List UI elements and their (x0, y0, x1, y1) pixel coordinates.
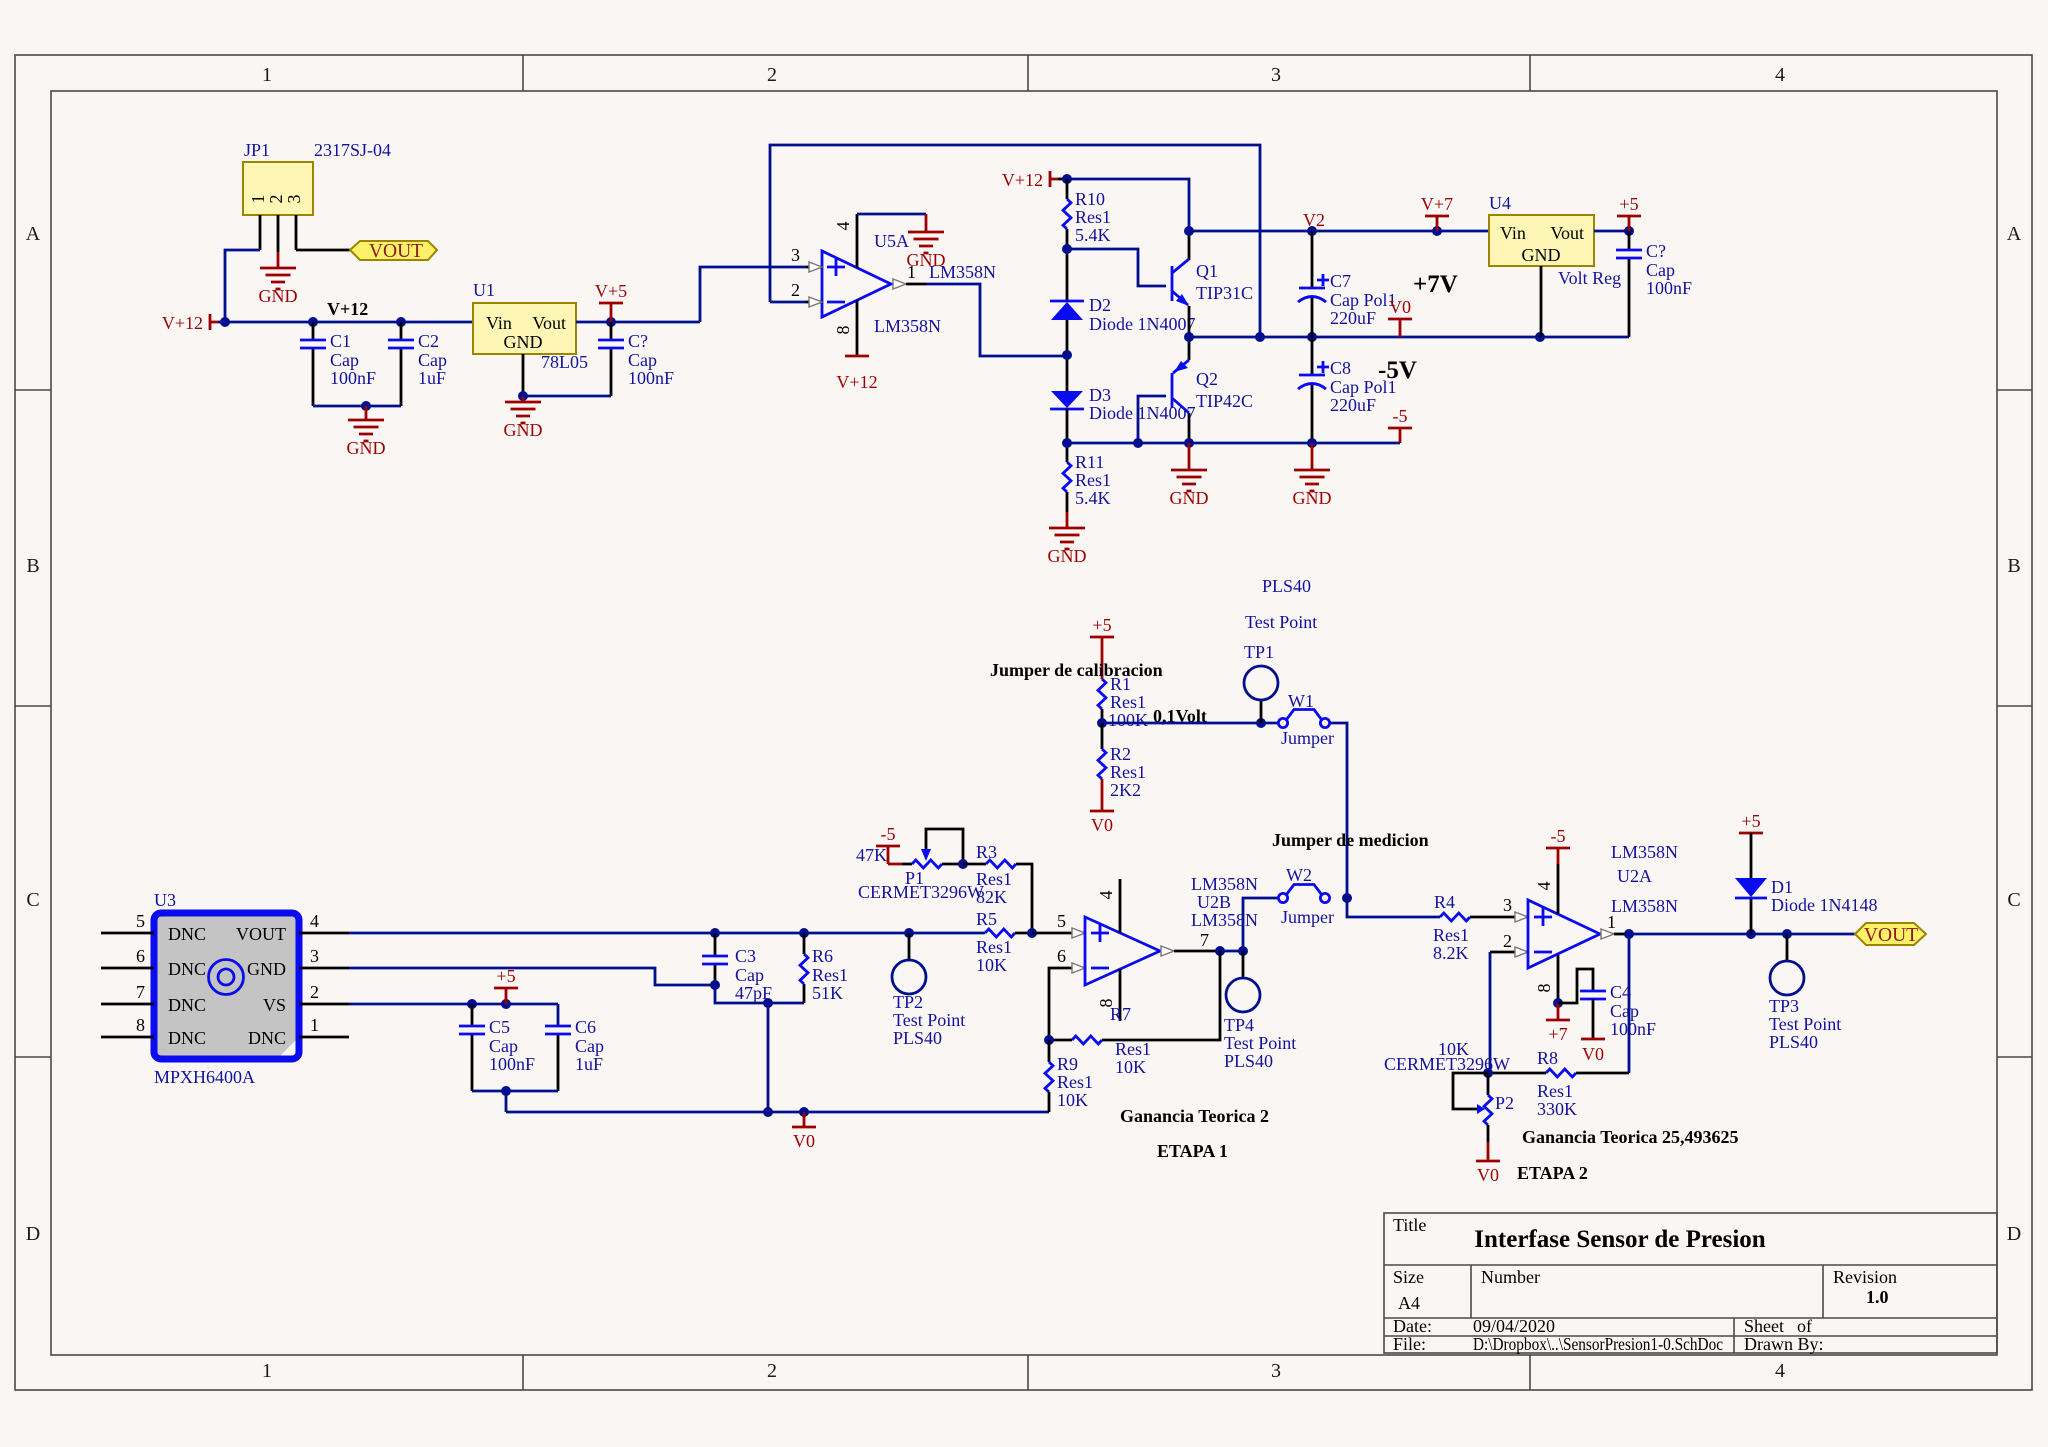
svg-text:VOUT: VOUT (1864, 925, 1918, 946)
resistor R6 (800, 933, 848, 1003)
potentiometer P1 CERMET3296W (856, 829, 984, 902)
svg-text:Jumper de calibracion: Jumper de calibracion (990, 660, 1163, 680)
svg-text:LM358N: LM358N (1191, 874, 1258, 894)
ground GND (JP1 pin2) (259, 252, 298, 306)
annotation Ganancia Teorica 2 (bold) (1120, 1106, 1269, 1126)
svg-text:4: 4 (1775, 64, 1785, 86)
svg-text:78L05: 78L05 (541, 352, 588, 372)
svg-text:ETAPA 2: ETAPA 2 (1517, 1163, 1588, 1183)
svg-text:V+7: V+7 (1421, 194, 1453, 214)
svg-text:GND: GND (1293, 488, 1332, 508)
svg-text:Drawn By:: Drawn By: (1744, 1334, 1824, 1354)
svg-text:Diode 1N4007: Diode 1N4007 (1089, 314, 1196, 334)
wire R10 to Q1 base (1062, 244, 1166, 286)
svg-text:100nF: 100nF (628, 368, 674, 388)
svg-text:R10: R10 (1075, 189, 1105, 209)
op-amp U2B LM358N (1085, 874, 1258, 985)
wire C? bottom to U1 GND (523, 395, 611, 398)
svg-text:B: B (26, 555, 39, 577)
svg-text:C6: C6 (575, 1017, 596, 1037)
svg-text:Q2: Q2 (1196, 369, 1218, 389)
svg-text:D:\Dropbox\..\SensorPresion1-0: D:\Dropbox\..\SensorPresion1-0.SchDoc (1473, 1334, 1723, 1354)
svg-text:Revision: Revision (1833, 1267, 1897, 1287)
svg-text:Cap: Cap (1646, 260, 1675, 280)
resistor R1 (1098, 674, 1148, 730)
power port V0 (P2) (1476, 1142, 1500, 1185)
svg-text:1: 1 (248, 195, 268, 204)
svg-text:V0: V0 (793, 1131, 815, 1151)
wire C1-C2 bottoms (313, 401, 401, 411)
svg-text:C8: C8 (1330, 358, 1351, 378)
jumper W1 (1278, 691, 1334, 748)
port VOUT (output) (1855, 923, 1926, 946)
op-amp U2A LM358N (1528, 842, 1678, 968)
svg-text:100nF: 100nF (489, 1054, 535, 1074)
svg-text:Res1: Res1 (976, 869, 1012, 889)
svg-text:V+12: V+12 (327, 299, 368, 319)
annotation ETAPA 1 (bold) (1157, 1141, 1228, 1161)
svg-text:C1: C1 (330, 331, 351, 351)
ground GND (Q2 collector) (1170, 443, 1209, 508)
capacitor C? (at U4) (1616, 231, 1692, 337)
transistor Q1 TIP31C (1172, 231, 1253, 337)
pin 2 of U3 VS (299, 982, 349, 1004)
svg-text:Vout: Vout (532, 313, 566, 333)
resistor R11 (1063, 452, 1111, 512)
svg-text:7: 7 (1200, 930, 1209, 950)
svg-text:PLS40: PLS40 (893, 1028, 942, 1048)
svg-text:VOUT: VOUT (236, 924, 286, 944)
pin 7 of U3 (101, 982, 154, 1004)
svg-text:Cap: Cap (628, 350, 657, 370)
svg-text:09/04/2020: 09/04/2020 (1473, 1316, 1555, 1336)
svg-text:Test Point: Test Point (893, 1010, 965, 1030)
wire D3 to bottom row (1062, 409, 1072, 462)
svg-text:3: 3 (310, 946, 319, 966)
svg-text:+5: +5 (1741, 811, 1760, 831)
svg-text:DNC: DNC (168, 959, 206, 979)
svg-text:Jumper: Jumper (1281, 907, 1334, 927)
ground GND (U1) (504, 396, 543, 440)
svg-text:Res1: Res1 (1433, 925, 1469, 945)
wire output to R8 (1628, 934, 1631, 1073)
svg-text:V0: V0 (1389, 297, 1411, 317)
svg-text:Jumper de medicion: Jumper de medicion (1272, 830, 1429, 850)
svg-text:GND: GND (504, 332, 543, 352)
ground GND (C1 C2) (347, 406, 386, 458)
power port V+7 (1421, 194, 1453, 231)
test point TP4 (1224, 951, 1296, 1071)
power port -5 (bottom row) (1388, 406, 1412, 443)
svg-text:R7: R7 (1110, 1004, 1131, 1024)
regulator U1 78L05 (473, 280, 588, 372)
annotation Jumper de medicion (bold) (1272, 830, 1429, 850)
TITLE-BLOCK (1384, 1213, 1997, 1354)
wire U2A output to VOUT (1624, 929, 1855, 939)
wire V+5 node to U5A pin3 (700, 267, 806, 322)
svg-text:TIP31C: TIP31C (1196, 283, 1253, 303)
svg-text:R8: R8 (1537, 1048, 1558, 1068)
net label V2 (1303, 210, 1325, 230)
svg-text:6: 6 (136, 946, 145, 966)
power port -5 (P1) (876, 824, 902, 864)
svg-text:Q1: Q1 (1196, 261, 1218, 281)
svg-text:C?: C? (628, 331, 648, 351)
svg-text:Vin: Vin (1500, 223, 1526, 243)
svg-text:C5: C5 (489, 1017, 510, 1037)
svg-text:CERMET3296W: CERMET3296W (858, 882, 984, 902)
svg-text:V+12: V+12 (1002, 170, 1043, 190)
svg-text:GND: GND (247, 959, 286, 979)
svg-text:6: 6 (1057, 946, 1066, 966)
svg-text:10K: 10K (976, 955, 1007, 975)
wire sensor GND net (349, 968, 715, 985)
svg-text:2317SJ-04: 2317SJ-04 (314, 140, 391, 160)
wire U4 GND pin (1540, 266, 1543, 337)
pin 4 of U3 VOUT (299, 911, 349, 933)
pin 2 net of U2A (1490, 931, 1528, 1073)
svg-text:1: 1 (1607, 912, 1616, 932)
svg-text:A: A (2007, 223, 2022, 245)
connector JP1 (243, 140, 391, 252)
power port V+12 (left) (162, 313, 218, 333)
diode D3 1N4007 (1050, 385, 1196, 423)
net label V+12 (bold) (327, 299, 368, 319)
svg-text:ETAPA 1: ETAPA 1 (1157, 1141, 1228, 1161)
svg-text:Test Point: Test Point (1224, 1033, 1296, 1053)
svg-text:Interfase Sensor de Presion: Interfase Sensor de Presion (1474, 1226, 1766, 1253)
transistor Q2 TIP42C (1172, 337, 1253, 443)
svg-text:LM358N: LM358N (929, 262, 996, 282)
capacitor C3 (702, 933, 772, 1003)
svg-text:8.2K: 8.2K (1433, 943, 1469, 963)
svg-text:Res1: Res1 (1537, 1081, 1573, 1101)
port VOUT (left) (350, 241, 437, 262)
capacitor C6 (545, 1004, 604, 1091)
svg-text:DNC: DNC (168, 924, 206, 944)
wire V2 rail (1184, 226, 1489, 236)
svg-text:TP2: TP2 (893, 992, 923, 1012)
svg-text:5: 5 (1057, 911, 1066, 931)
svg-text:2: 2 (767, 64, 777, 86)
svg-text:B: B (2007, 555, 2020, 577)
svg-text:D: D (2007, 1223, 2021, 1245)
svg-text:A: A (26, 223, 41, 245)
power port V+12 (R10 top) (1002, 170, 1058, 190)
svg-text:Cap: Cap (330, 350, 359, 370)
pin 3 of U3 GND (299, 946, 349, 968)
resistor R9 (1045, 1040, 1093, 1112)
wire U2B output node (1215, 946, 1248, 956)
diode D1 1N4148 (1735, 833, 1878, 934)
diode D2 1N4007 (1050, 295, 1196, 334)
svg-text:V+12: V+12 (162, 313, 203, 333)
svg-text:Res1: Res1 (1075, 207, 1111, 227)
svg-text:R3: R3 (976, 842, 997, 862)
svg-text:R11: R11 (1075, 452, 1104, 472)
svg-text:Test Point: Test Point (1245, 612, 1317, 632)
svg-text:Cap: Cap (418, 350, 447, 370)
svg-text:TIP42C: TIP42C (1196, 391, 1253, 411)
svg-text:Ganancia Teorica 2: Ganancia Teorica 2 (1120, 1106, 1269, 1126)
svg-text:Res1: Res1 (1110, 762, 1146, 782)
ground GND (C8) (1293, 443, 1332, 508)
wire C3 bottom to R6 bottom (715, 985, 804, 1112)
pin 4 of U5A to GND (833, 214, 926, 268)
power port V0 (mid rail) (1388, 297, 1412, 337)
power port +5 (D1) (1739, 811, 1763, 833)
pin 5 stub of U2B (1032, 911, 1085, 938)
svg-text:V0: V0 (1477, 1165, 1499, 1185)
capacitor C4 (1558, 969, 1656, 1039)
potentiometer P2 CERMET3296W (1384, 1039, 1514, 1142)
svg-text:Size: Size (1393, 1267, 1424, 1287)
power port +5 (R1) (1090, 615, 1114, 679)
pin 3 stub of U2A (1503, 895, 1528, 922)
annotation ETAPA 2 (bold) (1517, 1163, 1588, 1183)
capacitor C8 220uF (1298, 337, 1397, 443)
wire W1 to W2 (1330, 723, 1347, 898)
svg-text:JP1: JP1 (244, 140, 270, 160)
svg-text:Cap: Cap (489, 1036, 518, 1056)
svg-text:A4: A4 (1398, 1293, 1420, 1313)
power port +5 (sensor) (494, 966, 518, 1004)
wire C5-C6 bottoms to V0 rail (472, 1086, 558, 1112)
svg-text:GND: GND (1522, 245, 1561, 265)
svg-text:Cap: Cap (1610, 1001, 1639, 1021)
ground GND (U5A pin4) (907, 214, 946, 270)
power port +7 (U2A pin8) (1546, 1003, 1570, 1044)
svg-text:-5: -5 (1393, 406, 1408, 426)
wire W2 left to stage1 output (1243, 898, 1278, 951)
wire W2 node to R4 (1342, 893, 1440, 917)
svg-text:1: 1 (262, 64, 272, 86)
svg-text:V+12: V+12 (836, 372, 877, 392)
svg-text:C?: C? (1646, 241, 1666, 261)
svg-text:W1: W1 (1288, 691, 1314, 711)
svg-text:DNC: DNC (168, 1028, 206, 1048)
svg-text:D: D (26, 1223, 40, 1245)
pin 1 output of U5A (893, 262, 996, 289)
svg-text:VS: VS (263, 995, 286, 1015)
svg-text:2: 2 (791, 280, 800, 300)
svg-text:V0: V0 (1091, 815, 1113, 835)
wire mid V0 rail (1184, 332, 1629, 342)
svg-text:V2: V2 (1303, 210, 1325, 230)
annotation Ganancia Teorica 25,493625 (bold) (1522, 1127, 1739, 1147)
wire bottom row (1067, 438, 1400, 448)
svg-text:3: 3 (1503, 895, 1512, 915)
svg-text:R5: R5 (976, 909, 997, 929)
svg-text:U2B: U2B (1197, 892, 1231, 912)
capacitor C7 220uF (1298, 231, 1397, 337)
svg-text:P2: P2 (1495, 1093, 1514, 1113)
svg-text:D1: D1 (1771, 877, 1793, 897)
wire D3 node to Q2 base (1133, 396, 1166, 448)
svg-text:100K: 100K (1108, 710, 1148, 730)
op-amp U5A LM358N (791, 231, 941, 336)
svg-text:1: 1 (310, 1015, 319, 1035)
svg-text:1.0: 1.0 (1866, 1287, 1889, 1307)
svg-text:of: of (1797, 1316, 1812, 1336)
svg-text:Number: Number (1481, 1267, 1540, 1287)
wire R1-R2 node to W1 (1097, 718, 1278, 728)
svg-text:R6: R6 (812, 946, 833, 966)
svg-text:1: 1 (907, 262, 916, 282)
wire U1 GND pin (518, 354, 528, 401)
power port V+12 (U5A pin8) (836, 356, 877, 392)
svg-text:Ganancia Teorica 25,493625: Ganancia Teorica 25,493625 (1522, 1127, 1739, 1147)
svg-text:-5: -5 (1551, 826, 1566, 846)
pin 6 of U3 (101, 946, 154, 968)
svg-text:51K: 51K (812, 983, 843, 1003)
svg-text:GND: GND (1170, 488, 1209, 508)
svg-text:-5V: -5V (1378, 357, 1417, 384)
annotation Jumper de calibracion (bold) (990, 660, 1163, 680)
pin 6 net of U2B (1049, 946, 1085, 1040)
svg-text:C3: C3 (735, 946, 756, 966)
svg-text:D3: D3 (1089, 385, 1111, 405)
svg-text:GND: GND (504, 420, 543, 440)
svg-text:2: 2 (310, 982, 319, 1002)
svg-text:4: 4 (1534, 882, 1554, 891)
pin 4 of U2A to -5 (1534, 864, 1558, 914)
resistor R2 (1098, 723, 1146, 800)
resistor R8 (feedback) (1483, 1048, 1629, 1119)
test point TP3 (1769, 934, 1841, 1052)
wire bottom V0 rail (506, 1107, 1049, 1117)
svg-text:82K: 82K (976, 887, 1007, 907)
resistor R10 (1063, 179, 1111, 301)
svg-text:C2: C2 (418, 331, 439, 351)
svg-text:220uF: 220uF (1330, 395, 1376, 415)
svg-text:8: 8 (136, 1015, 145, 1035)
svg-text:4: 4 (1096, 891, 1116, 900)
svg-text:100nF: 100nF (330, 368, 376, 388)
svg-text:Vout: Vout (1550, 223, 1584, 243)
svg-text:U4: U4 (1489, 193, 1511, 213)
svg-text:D2: D2 (1089, 295, 1111, 315)
svg-text:MPXH6400A: MPXH6400A (154, 1067, 255, 1087)
svg-text:4: 4 (310, 911, 319, 931)
net label +7V (bold) (1413, 271, 1458, 298)
svg-text:C: C (26, 889, 39, 911)
svg-text:VOUT: VOUT (369, 241, 423, 262)
svg-text:DNC: DNC (168, 995, 206, 1015)
test point TP2 (892, 933, 965, 1048)
svg-text:+7: +7 (1548, 1024, 1567, 1044)
capacitor C1 (300, 322, 376, 406)
svg-text:Date:: Date: (1393, 1316, 1432, 1336)
svg-text:Res1: Res1 (1115, 1039, 1151, 1059)
resistor R7 (feedback) (1044, 951, 1220, 1077)
wire D2 to D3 (1062, 320, 1072, 391)
pin 4 stub of U2B (1096, 879, 1120, 933)
wire pin1 to V+12 rail (225, 250, 260, 322)
svg-text:TP3: TP3 (1769, 996, 1799, 1016)
power port V0 (C4) (1581, 1039, 1605, 1064)
svg-text:5.4K: 5.4K (1075, 225, 1111, 245)
svg-text:Jumper: Jumper (1281, 728, 1334, 748)
pin 8 of U5A to V+12 (833, 300, 857, 356)
capacitor C? (at U1) (598, 322, 674, 396)
svg-text:2: 2 (266, 195, 286, 204)
svg-text:R4: R4 (1434, 892, 1455, 912)
pin 1 output of U2A (1601, 912, 1629, 939)
svg-text:Vin: Vin (486, 313, 512, 333)
svg-text:TP1: TP1 (1244, 642, 1274, 662)
svg-text:3: 3 (284, 195, 304, 204)
svg-text:Res1: Res1 (812, 965, 848, 985)
jumper W2 (1278, 865, 1334, 927)
svg-text:3: 3 (791, 245, 800, 265)
svg-text:2: 2 (767, 1360, 777, 1382)
svg-text:1: 1 (262, 1360, 272, 1382)
pin 1 of U3 DNC (299, 1015, 349, 1037)
svg-text:U2A: U2A (1617, 866, 1652, 886)
svg-text:LM358N: LM358N (1191, 910, 1258, 930)
power port +5 (U4) (1617, 194, 1641, 231)
pin 8 of U3 (101, 1015, 154, 1037)
svg-text:Res1: Res1 (1110, 692, 1146, 712)
power port -5 (U2A pin4) (1546, 826, 1570, 864)
svg-text:CERMET3296W: CERMET3296W (1384, 1054, 1510, 1074)
svg-text:100nF: 100nF (1646, 278, 1692, 298)
svg-text:PLS40: PLS40 (1769, 1032, 1818, 1052)
pin 8 stub of U2B (1096, 969, 1120, 1021)
pin 7 output of U2B (1161, 930, 1220, 956)
svg-text:LM358N: LM358N (874, 316, 941, 336)
regulator U4 Volt Reg (1489, 193, 1621, 288)
wire U5A output to D2-D3 node (926, 284, 1067, 356)
wire V+12 to Q1 collector (1058, 174, 1189, 231)
svg-text:Cap: Cap (735, 965, 764, 985)
svg-text:U5A: U5A (874, 231, 909, 251)
power port V+5 (595, 281, 627, 322)
svg-text:Cap: Cap (575, 1036, 604, 1056)
svg-text:Res1: Res1 (976, 937, 1012, 957)
svg-text:R1: R1 (1110, 674, 1131, 694)
svg-text:220uF: 220uF (1330, 308, 1376, 328)
svg-text:Title: Title (1393, 1215, 1426, 1235)
wire pin3 to VOUT port (296, 249, 350, 252)
svg-text:8: 8 (1534, 984, 1554, 993)
svg-text:Volt Reg: Volt Reg (1558, 268, 1621, 288)
svg-text:3: 3 (1271, 1360, 1281, 1382)
svg-text:U1: U1 (473, 280, 495, 300)
svg-text:100nF: 100nF (1610, 1019, 1656, 1039)
svg-text:C: C (2007, 889, 2020, 911)
resistor R5 (976, 909, 1037, 975)
pin 5 of U3 (101, 911, 154, 933)
sensor U3 MPXH6400A (154, 890, 299, 1087)
power port V0 (bottom rail) (792, 1112, 816, 1151)
svg-text:7: 7 (136, 982, 145, 1002)
svg-text:+7V: +7V (1413, 271, 1458, 298)
svg-text:8: 8 (833, 326, 853, 335)
svg-text:Res1: Res1 (1075, 470, 1111, 490)
svg-text:5.4K: 5.4K (1075, 488, 1111, 508)
wire U4 Vout to +5 (1594, 226, 1634, 236)
test point TP1 (1244, 576, 1317, 723)
svg-text:330K: 330K (1537, 1099, 1577, 1119)
svg-text:LM358N: LM358N (1611, 842, 1678, 862)
svg-text:Diode 1N4148: Diode 1N4148 (1771, 895, 1878, 915)
svg-text:PLS40: PLS40 (1262, 576, 1311, 596)
svg-text:5: 5 (136, 911, 145, 931)
svg-text:PLS40: PLS40 (1224, 1051, 1273, 1071)
pin 8 of U2A (1534, 955, 1563, 1008)
